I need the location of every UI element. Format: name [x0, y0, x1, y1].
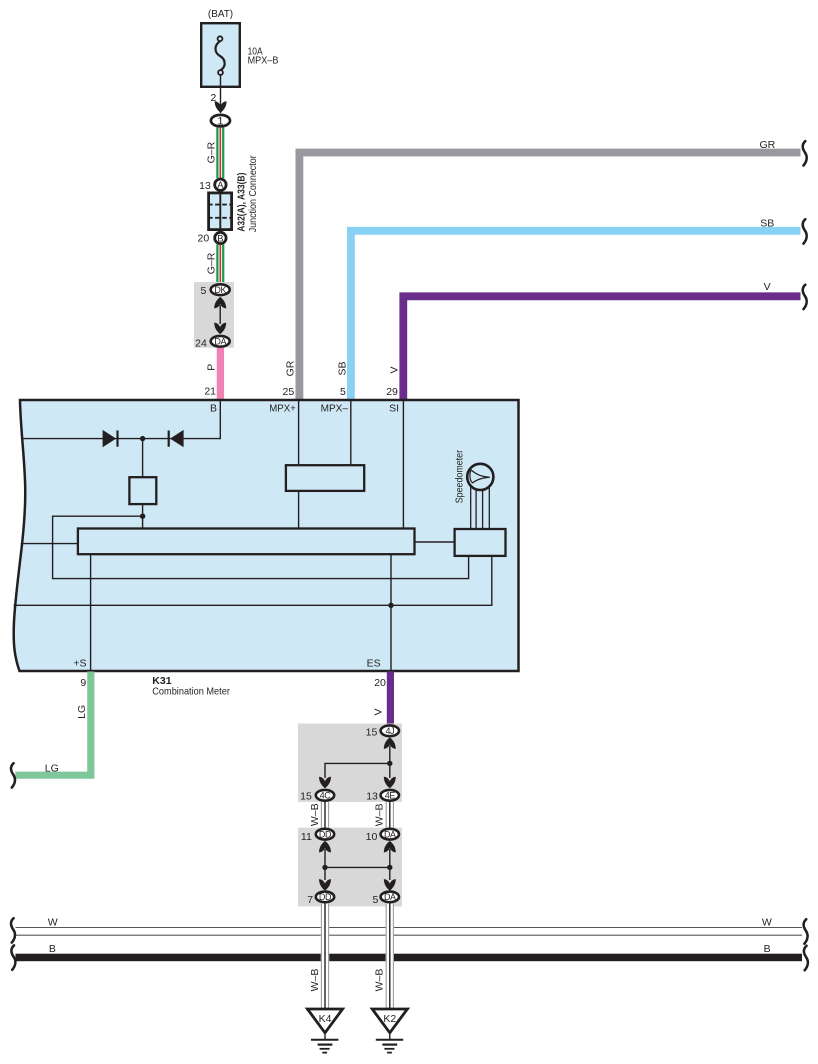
wire-break squiggle bus W left end [11, 918, 15, 942]
svg-text:(BAT): (BAT) [208, 8, 233, 20]
junction node dot [387, 761, 392, 766]
junction connector pin B [215, 232, 226, 243]
svg-text:LG: LG [45, 762, 59, 774]
connector oval DK [211, 284, 230, 295]
bus W white wire [16, 927, 803, 929]
wire-break squiggle bus B right end [804, 946, 808, 970]
connector oval DA [211, 336, 230, 347]
wire V violet SI [403, 296, 800, 399]
svg-text:5: 5 [340, 386, 346, 398]
diode D1 (anode left) [103, 430, 117, 447]
wire ES internal [390, 554, 392, 670]
internal component box [129, 477, 156, 504]
svg-text:7: 7 [307, 894, 313, 906]
svg-text:5: 5 [200, 285, 206, 297]
svg-text:W–B: W–B [374, 969, 386, 992]
connector oval 4E [381, 790, 399, 801]
svg-text:MPX–: MPX– [321, 403, 349, 415]
svg-text:20: 20 [198, 233, 210, 245]
svg-text:13: 13 [366, 790, 378, 802]
svg-text:V: V [389, 366, 401, 373]
svg-text:W–B: W–B [374, 803, 386, 826]
wire DD down to node [324, 849, 326, 880]
junction node dot [140, 436, 145, 441]
arrow up into DK [214, 297, 226, 309]
arrow into connector 1 [215, 101, 227, 113]
svg-text:DD: DD [319, 892, 332, 902]
junction connector A32(A),A33(B) box [209, 193, 232, 230]
svg-text:21: 21 [204, 386, 216, 398]
svg-text:A: A [217, 180, 224, 190]
connector oval DD upper [316, 829, 334, 840]
svg-text:B: B [217, 233, 223, 243]
svg-text:+S: +S [73, 657, 86, 669]
wire W-B DD to ground K4 [321, 904, 329, 1010]
junction connector pin A [215, 179, 226, 190]
svg-text:DK: DK [214, 285, 226, 295]
wire W-B 4C to DD [321, 802, 328, 828]
svg-text:DA: DA [384, 892, 396, 902]
svg-text:K2: K2 [383, 1013, 396, 1025]
wire left edge to main bar [21, 543, 78, 545]
connector oval 1 [211, 115, 230, 127]
svg-text:11: 11 [301, 831, 312, 843]
svg-text:V: V [373, 708, 385, 715]
mpx module box [286, 465, 364, 491]
fuse element [218, 36, 223, 41]
svg-text:W: W [762, 917, 772, 929]
connector oval DA lower [381, 892, 399, 903]
K31 combination meter body [14, 400, 519, 671]
connector oval DD lower [316, 892, 334, 903]
svg-text:A32(A), A33(B): A32(A), A33(B) [235, 173, 247, 232]
wire LG light green [15, 672, 91, 776]
svg-text:Speedometer: Speedometer [453, 450, 465, 504]
svg-text:15: 15 [366, 727, 378, 739]
svg-text:13: 13 [199, 180, 211, 192]
svg-text:SB: SB [337, 361, 349, 375]
svg-text:4C: 4C [320, 791, 332, 801]
svg-text:5: 5 [373, 894, 379, 906]
svg-text:4E: 4E [385, 791, 396, 801]
wire W-B DA to ground K2 [386, 904, 394, 1010]
junction node dots and tie line [325, 866, 390, 868]
svg-text:DD: DD [319, 830, 332, 840]
svg-text:29: 29 [386, 386, 398, 398]
arrow down into 4E [384, 777, 396, 789]
svg-text:DA: DA [384, 830, 396, 840]
wire ES horizontal run [14, 556, 492, 605]
svg-text:1: 1 [217, 116, 223, 128]
junction connector center divider [219, 192, 221, 231]
wire-break squiggle V right end [803, 285, 807, 309]
svg-text:10: 10 [366, 831, 378, 843]
wire-break squiggle GR right end [803, 141, 807, 165]
svg-text:LG: LG [76, 705, 88, 719]
speedometer needle [470, 470, 490, 483]
svg-text:B: B [210, 403, 217, 415]
svg-text:G–R: G–R [206, 252, 218, 274]
ground K2 earth symbol [389, 1033, 391, 1040]
shielded connector block DK/DA [194, 282, 234, 348]
wire node left-down to speedometer branch [53, 516, 469, 578]
diode D2 (anode right) [170, 430, 184, 447]
svg-text:MPX–B: MPX–B [248, 56, 279, 67]
wire DK to DA [219, 305, 221, 324]
svg-text:25: 25 [283, 386, 295, 398]
svg-text:K4: K4 [319, 1013, 332, 1025]
wire-break squiggle SB right end [803, 219, 807, 243]
svg-text:20: 20 [374, 677, 386, 689]
connector oval 4J [381, 725, 399, 736]
svg-text:GR: GR [285, 360, 297, 376]
wire-break squiggle bus W right end [804, 919, 808, 943]
wire-break squiggle LG left end [11, 763, 15, 787]
ground K4 triangle [307, 1009, 342, 1033]
junction node dot on ES run [388, 603, 393, 608]
svg-text:Junction Connector: Junction Connector [247, 155, 259, 232]
wire MPX+ into mpx module [298, 400, 300, 465]
svg-text:P: P [205, 364, 217, 371]
wire DA down to node [389, 849, 391, 880]
svg-text:9: 9 [80, 677, 86, 689]
svg-text:GR: GR [760, 139, 776, 151]
wire MPX- into mpx module [350, 400, 352, 465]
svg-text:B: B [49, 943, 56, 955]
bus B black wire [16, 954, 803, 962]
wire 4J down to node [389, 746, 391, 779]
connector oval 4C [316, 790, 334, 801]
wire node to 4C [325, 763, 390, 778]
wire node to resistor box [142, 439, 144, 478]
wire W-B 4E to DA [386, 802, 393, 828]
speedometer coil wires [470, 486, 472, 529]
ground K4 earth symbol [324, 1033, 326, 1040]
junction node dot [140, 514, 145, 519]
svg-text:B: B [764, 943, 771, 955]
connector oval DA upper [381, 829, 399, 840]
fuse 10A MPX-B box [201, 23, 240, 87]
speedometer driver box [455, 529, 506, 556]
svg-text:W–B: W–B [309, 803, 321, 826]
arrow down into DA lower [384, 879, 396, 891]
shielded connector block DD/DA [298, 828, 402, 907]
wire from fuse pin 2 [220, 75, 222, 113]
svg-text:Combination Meter: Combination Meter [152, 685, 230, 697]
arrow up into DD [319, 841, 331, 853]
wire SI to main bar [402, 400, 404, 529]
wire +S internal [90, 554, 92, 670]
wire SB light-blue MPX- [351, 231, 801, 400]
svg-text:ES: ES [367, 657, 381, 669]
wire GR gray MPX+ [299, 153, 800, 400]
arrow down into DA [214, 323, 226, 335]
arrow up into DA [384, 841, 396, 853]
main circuit bar [78, 529, 415, 555]
wire-break squiggle bus B left end [11, 945, 15, 969]
wire V violet pin20 to 4J [387, 672, 394, 725]
arrow up into 4J [384, 737, 396, 749]
shielded connector block 4J/4C/4E [298, 724, 402, 802]
wire P pink into pin 21 [217, 348, 224, 400]
junction connector dashed dividers [208, 204, 232, 206]
svg-text:24: 24 [195, 337, 207, 349]
arrow down into DD lower [319, 879, 331, 891]
svg-text:W: W [48, 917, 58, 929]
speedometer gauge circle [467, 464, 493, 490]
svg-text:DA: DA [214, 337, 226, 347]
svg-text:4J: 4J [385, 726, 394, 736]
svg-text:W–B: W–B [309, 969, 321, 992]
internal wire from B down and left [24, 400, 221, 439]
wire box to node [142, 504, 144, 528]
svg-text:V: V [764, 281, 771, 293]
svg-text:SI: SI [389, 403, 399, 415]
wire main bar to speedometer box [415, 541, 455, 543]
ground K2 triangle [372, 1009, 407, 1033]
svg-text:15: 15 [300, 790, 312, 802]
svg-text:SB: SB [760, 217, 774, 229]
wire G-R (green w/ red stripe) fuse to junction A [217, 128, 223, 179]
arrow down into 4C [319, 777, 331, 789]
wire G-R junction B to connector DK [217, 244, 223, 283]
svg-text:MPX+: MPX+ [269, 403, 296, 415]
svg-text:G–R: G–R [206, 141, 218, 163]
